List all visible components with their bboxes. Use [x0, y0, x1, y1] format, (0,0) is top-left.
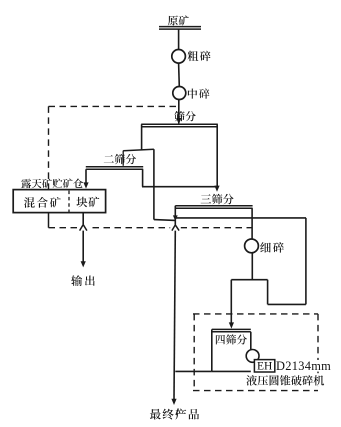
svg-text:EH: EH [257, 361, 272, 373]
svg-text:D2134mm: D2134mm [276, 359, 331, 373]
